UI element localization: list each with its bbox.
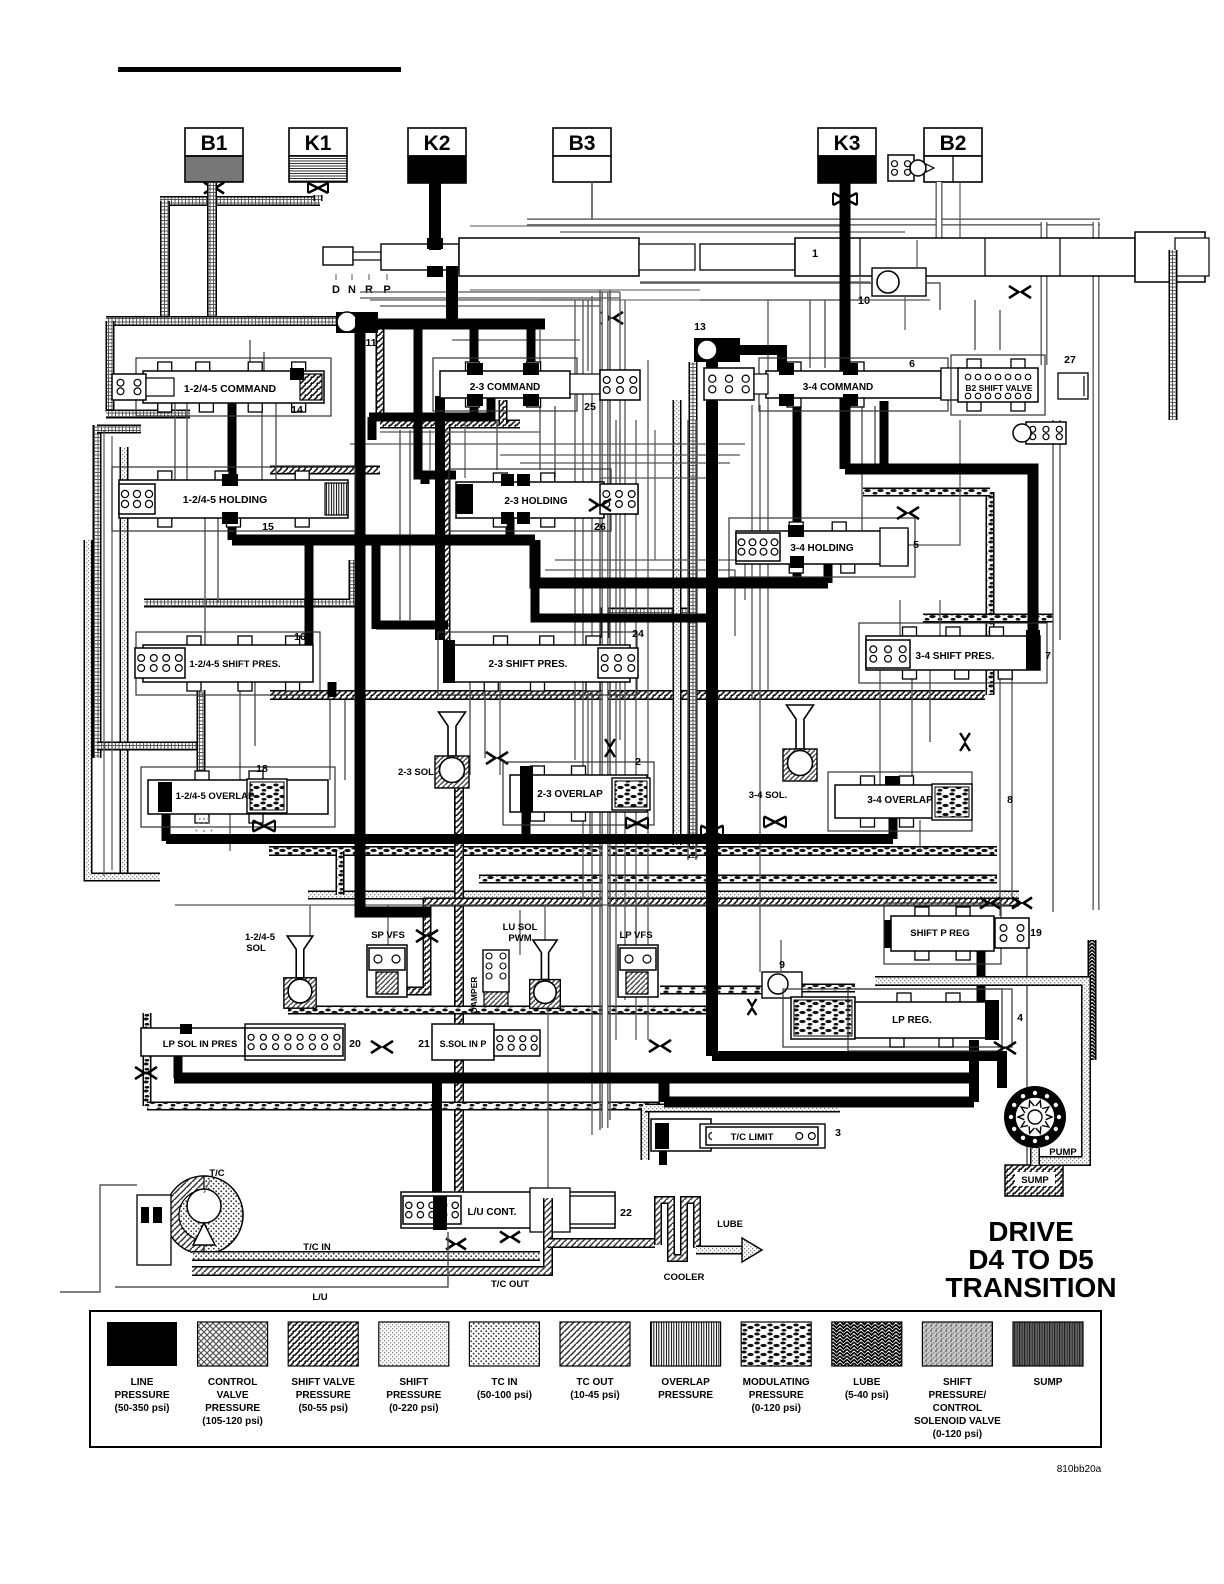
svg-text:16: 16 [294,631,306,643]
line x418 drop [418,324,456,484]
wire b2 shift valve risers [975,300,1060,912]
wire L/U [115,1232,448,1287]
svg-text:2: 2 [635,756,641,768]
svg-text:PWM: PWM [508,933,531,944]
band x677 grid vertical [673,400,682,845]
line holding header y540 [232,518,535,540]
label COOLER [664,1272,705,1283]
line junction11 manifold [355,319,545,330]
clutch K2 [408,128,466,183]
svg-text:LP REG.: LP REG. [892,1015,932,1026]
svg-text:14: 14 [291,404,303,416]
wire near 26 [620,430,655,560]
band y879 modulating [479,875,997,884]
valve 2-3 SHIFT PRES [438,632,638,695]
label LP VFS [619,930,652,941]
svg-text:T/C: T/C [209,1168,224,1179]
svg-text:DAMPER: DAMPER [469,977,479,1014]
label 25 [584,401,596,413]
line x474 to 2-3 command [470,324,479,417]
band lube right frame [1088,940,1097,1060]
svg-text:3-4 OVERLAP: 3-4 OVERLAP [867,795,933,806]
svg-text:SOLENOID VALVE: SOLENOID VALVE [914,1416,1001,1427]
svg-text:3-4 HOLDING: 3-4 HOLDING [790,543,854,554]
line x232 command-holding [228,403,237,540]
label 3-4 SOL [749,790,788,801]
svg-text:(0-120 psi): (0-120 psi) [751,1403,800,1414]
svg-text:4: 4 [1017,1012,1023,1024]
wire overlaps to bands [230,812,920,851]
wire overlap columns [330,700,345,780]
valve 10 [640,268,940,310]
svg-text:MODULATING: MODULATING [743,1377,810,1388]
check 20 [371,1041,393,1053]
svg-text:(0-220 psi): (0-220 psi) [389,1403,438,1414]
svg-text:LUBE: LUBE [717,1219,743,1230]
line x712 long drop [706,362,718,1056]
solenoid LP VFS [618,945,658,997]
svg-text:24: 24 [632,628,644,640]
svg-text:T/C IN: T/C IN [303,1242,331,1253]
clutch B3 [553,128,611,182]
wire right shift pres to reg [1000,670,1012,916]
valve LP SOL IN PRES 20 [141,1024,345,1060]
svg-text:PRESSURE: PRESSURE [114,1390,169,1401]
legend MODULATING [741,1322,811,1414]
svg-text:L/U CONT.: L/U CONT. [468,1207,517,1218]
valve 3-4 OVERLAP [828,772,972,831]
svg-text:1-2/4-5 OVERLAP: 1-2/4-5 OVERLAP [176,791,255,802]
torque converter T/C [60,1176,243,1292]
check valve below B1 [204,183,224,194]
line pressure junction 11 [336,312,378,333]
label 19 [1030,927,1042,939]
svg-text:SP VFS: SP VFS [371,930,405,941]
svg-text:1-2/4-5 SHIFT PRES.: 1-2/4-5 SHIFT PRES. [189,659,280,670]
solenoid 2-3 SOL [435,712,469,788]
svg-text:(50-55 psi): (50-55 psi) [298,1403,347,1414]
wire mid corridor bundle [575,292,625,1135]
svg-text:DRIVE: DRIVE [988,1216,1074,1247]
svg-text:26: 26 [594,521,606,533]
legend TC OUT [560,1322,630,1401]
svg-text:(0-120 psi): (0-120 psi) [933,1429,982,1440]
check below 2-3 overlap [626,818,648,829]
check valve below K1 [308,183,328,193]
vertical check below 9 [748,999,757,1015]
legend SHIFT [379,1322,449,1414]
clutch K3 [818,128,876,183]
svg-text:CONTROL: CONTROL [208,1377,257,1388]
svg-text:CONTROL: CONTROL [933,1403,982,1414]
svg-text:SHIFT VALVE: SHIFT VALVE [291,1377,355,1388]
svg-text:LINE: LINE [131,1377,154,1388]
wire hor link rows [175,904,1010,906]
line drop x360 [360,330,430,912]
title underline [118,67,401,72]
wire left col pair [104,430,112,876]
checks below L/U CONT [446,1232,520,1250]
wire B2 drops [939,182,960,255]
manual valve detents D N R P [332,274,391,296]
svg-text:LP SOL IN PRES: LP SOL IN PRES [163,1039,238,1050]
valve L/U CONT 22 [401,1188,615,1232]
svg-text:SUMP: SUMP [1034,1377,1063,1388]
label 24 [632,628,644,640]
label SP VFS [371,930,405,941]
svg-text:VALVE: VALVE [217,1390,249,1401]
band left outer vertical [97,425,141,758]
wire label10 link [905,240,917,330]
check above 3-4 holding right [897,507,919,519]
wire 3-4 col [810,300,875,530]
band y695 checker [270,690,985,700]
wire hor above shift pres mid [545,560,745,636]
valve 1-2/4-5 COMMAND [112,358,331,416]
wire top manifold [527,222,1100,232]
svg-text:LU SOL: LU SOL [503,922,538,933]
wire shift pres down [240,670,930,785]
check on x712 line [701,826,723,837]
line manifold to L/U CONT [432,1078,442,1228]
wire 2-3 command feeds top [452,330,580,371]
svg-text:2-3 SOL: 2-3 SOL [398,767,434,778]
clutch K1 [289,128,347,182]
label 810bb20a [1057,1464,1102,1475]
label 1 [812,248,818,260]
band tc limit frame [645,1108,840,1160]
label 2 [635,756,641,768]
line K2 to 2-3 shift pres [435,396,445,640]
legend LUBE [832,1322,902,1401]
label 10 [858,295,870,307]
solenoid 1-2/4-5 SOL [284,936,316,1008]
label LU SOL PWM [503,922,538,944]
valve 1-2/4-5 HOLDING [112,467,355,531]
wire 3-4 corridor bundle [752,300,768,972]
label 16 [294,631,306,643]
line shift pres bottom stub [328,682,337,697]
svg-text:L/U: L/U [312,1292,327,1303]
wire command risers [250,340,264,371]
line shift p reg drop [977,951,986,1002]
svg-text:PRESSURE: PRESSURE [205,1403,260,1414]
label 9 [779,959,785,971]
legend SHIFT VALVE [288,1322,358,1414]
svg-text:2-3 SHIFT PRES.: 2-3 SHIFT PRES. [489,659,568,670]
plug 3-4 holding tab [788,525,804,568]
svg-text:3-4 SOL.: 3-4 SOL. [749,790,788,801]
line overlap bottom header [166,818,893,839]
svg-text:(105-120 psi): (105-120 psi) [202,1416,263,1427]
label 14 [291,404,303,416]
svg-text:2-3 OVERLAP: 2-3 OVERLAP [537,789,603,800]
valve S.SOL IN P 21 [432,1024,540,1060]
manual valve assembly 1 [323,226,1209,300]
plug 3-4 command tabs [779,363,858,406]
label 15 [262,521,274,533]
svg-text:1-2/4-5 HOLDING: 1-2/4-5 HOLDING [183,494,268,506]
line tc limit drop [659,1151,667,1165]
svg-text:SHIFT P REG: SHIFT P REG [910,928,969,939]
clutch B1 [185,128,243,182]
band y489 speckle [863,488,990,497]
sump [1005,1165,1063,1196]
band B1-K1 supply horizontal [160,196,320,206]
svg-text:TRANSITION: TRANSITION [945,1272,1116,1303]
svg-text:25: 25 [584,401,596,413]
spray symbol [196,818,212,832]
line 2-3 command bottom header [369,398,491,440]
label 27 [1064,354,1076,366]
svg-text:3: 3 [835,1127,841,1139]
wire right column pair [688,420,696,860]
label 21 [418,1038,430,1050]
cooler coil [658,1200,697,1258]
label 13 [694,321,706,333]
svg-text:27: 27 [1064,354,1076,366]
legend CONTROL [198,1322,268,1427]
svg-text:S.SOL IN P: S.SOL IN P [440,1039,487,1049]
wire 3-4 shift pres feeds [880,600,940,785]
wire sol to overlap links [310,905,636,945]
label 3 [835,1127,841,1139]
wire 2-3 column [400,420,497,620]
label T/C [204,1168,225,1193]
svg-text:3-4 SHIFT PRES.: 3-4 SHIFT PRES. [916,651,995,662]
solenoid LU SOL [530,940,561,1008]
solenoid symbol left of B2 [888,155,934,181]
svg-text:2-3 HOLDING: 2-3 HOLDING [504,496,568,507]
check valve above 3-4 holding [589,499,611,511]
svg-text:SUMP: SUMP [1021,1175,1049,1186]
label 6 [909,358,915,370]
valve 2-3 OVERLAP [503,762,654,825]
check right of row [649,1040,671,1052]
band y847 modulating [269,846,997,856]
svg-text:SOL: SOL [246,943,266,954]
plug 2-3 holding tabs [501,474,530,524]
band checker to shift pres [270,466,380,475]
band left riser [160,201,170,321]
check right of SP VFS [416,930,438,942]
svg-text:OVERLAP: OVERLAP [661,1377,710,1388]
svg-text:K3: K3 [834,132,861,155]
band T/C OUT [192,1198,655,1271]
plug holding tabs [222,474,238,524]
label 1-2/4-5 SOL [245,932,276,954]
band lp vfs to 9 [660,988,855,990]
svg-text:15: 15 [262,521,274,533]
band x990 vertical [986,492,995,695]
valve 1-2/4-5 SHIFT PRES [135,632,320,695]
band control frame 20 [147,1013,660,1106]
valve 3-4 COMMAND [704,358,959,411]
line pump manifold 2 [174,1073,974,1084]
svg-text:TC IN: TC IN [491,1377,517,1388]
line pump manifold 3 [664,1078,974,1102]
band shift pres right [923,614,1053,623]
valve 3-4 SHIFT PRES [859,623,1047,683]
line 13 to 3-4 command [738,350,782,371]
svg-text:D: D [332,284,340,296]
svg-text:K2: K2 [424,132,451,155]
solenoid 3-4 SOL [783,705,817,781]
line K3 drop [840,183,851,469]
lube arrow [696,1238,762,1262]
plug 2-3 command tabs [467,363,539,406]
svg-text:22: 22 [620,1207,632,1219]
svg-text:SHIFT: SHIFT [399,1377,428,1388]
label 7 [1045,650,1051,662]
band above shift pres [144,560,353,603]
line 1-2/4-5 overlap drop [162,812,171,841]
line lp sol drop [174,1054,183,1078]
wire mid risers [588,290,610,1130]
svg-text:(50-350 psi): (50-350 psi) [114,1403,169,1414]
check valve on manual valve right [1009,286,1031,298]
svg-text:19: 19 [1030,927,1042,939]
svg-text:18: 18 [256,763,268,775]
check valve left of 2-3 overlap [486,752,508,764]
wire B3 drop [591,182,593,219]
svg-text:B3: B3 [569,132,596,155]
svg-text:TC OUT: TC OUT [576,1377,613,1388]
svg-text:D4 TO D5: D4 TO D5 [968,1244,1094,1275]
wire 2-3 col mid [430,420,465,478]
svg-text:(5-40 psi): (5-40 psi) [845,1390,889,1401]
svg-text:9: 9 [779,959,785,971]
line pressure K2 drop [435,183,452,326]
svg-text:SHIFT: SHIFT [943,1377,972,1388]
legend LINE [107,1322,177,1414]
valve 9 ball [762,972,802,998]
line x531 to 2-3 command [527,324,536,371]
wire long mid verticals [636,360,648,1040]
svg-text:LP VFS: LP VFS [619,930,652,941]
check valve below K3 [833,193,857,205]
band command right checker [380,326,520,424]
svg-text:COOLER: COOLER [664,1272,705,1283]
vertical check above 3-4 overlap [960,733,970,751]
band feeder row [106,316,336,326]
band left inner vertical [120,447,129,880]
band x340 riser [336,851,345,895]
label 4 [1017,1012,1023,1024]
line 3-4 holding drop [793,401,802,585]
svg-text:P: P [383,284,390,296]
vertical check above 2-3 overlap [605,739,615,757]
legend SHIFT [914,1322,1001,1440]
check valve below overlap [253,821,275,832]
wire network command to holding right [262,403,276,480]
svg-text:(10-45 psi): (10-45 psi) [570,1390,619,1401]
svg-text:2-3 COMMAND: 2-3 COMMAND [470,382,541,393]
band solenoid rail [288,962,713,1010]
svg-text:13: 13 [694,321,706,333]
channel outline LP REG [783,989,1012,1047]
check right of LP REG [994,1042,1016,1054]
plug shift p reg left [884,920,896,948]
line manifold bus riser [969,1040,979,1102]
check valve below B3 [601,312,623,324]
svg-text:7: 7 [1045,650,1051,662]
band lower-left horizontal [97,742,205,751]
line 2-3 shift pres feed [376,540,448,629]
svg-text:PRESSURE: PRESSURE [296,1390,351,1401]
valve 2-3 COMMAND [433,358,640,411]
line pump manifold 1 [712,1056,1002,1088]
svg-text:PRESSURE: PRESSURE [749,1390,804,1401]
legend OVERLAP [651,1322,721,1401]
checks near shift p reg [980,898,1032,909]
legend box [90,1311,1101,1447]
band pump enclosure [875,981,1086,1161]
valve B2 SHIFT VALVE [951,355,1088,415]
line junction 13 [694,338,740,362]
plug black command tab [290,368,304,380]
band sp vfs output [398,902,1019,991]
label L/U [312,1292,327,1303]
band pump to sump [1030,1148,1040,1165]
line 2-3 overlap riser [522,806,531,843]
label T/C IN [303,1242,331,1253]
valve T/C LIMIT 3 [651,1119,825,1151]
line x884 3-4 command feed [880,401,889,469]
check below 3-4 overlap [764,817,786,828]
solenoid SP VFS [367,945,407,997]
label T/C OUT [491,1279,529,1290]
valve small 1030-430 [1013,422,1066,444]
band manual valve drop [1169,250,1178,420]
band checker 2-3 bottom [499,400,508,424]
band K1 drop [314,195,323,201]
wire 25 to holding [540,406,555,478]
valve 2-3 HOLDING [449,469,638,531]
label 26 [594,521,606,533]
svg-text:PRESSURE/: PRESSURE/ [929,1390,987,1401]
band spring riser [197,690,206,775]
band 2-3 sol output [454,786,464,1192]
svg-text:810bb20a: 810bb20a [1057,1464,1102,1475]
label 5 [913,539,919,551]
svg-text:T/C LIMIT: T/C LIMIT [731,1132,774,1143]
svg-text:PRESSURE: PRESSURE [386,1390,441,1401]
pump [1004,1086,1066,1148]
band outer dotted frame [88,540,160,877]
band frame around command spring [106,321,190,414]
wire 2-3 shift pres columns [500,682,610,775]
band T/C IN [192,1251,540,1261]
svg-text:K1: K1 [305,132,332,155]
svg-text:1: 1 [812,248,818,260]
svg-text:(50-100 psi): (50-100 psi) [477,1390,532,1401]
band checker long vertical [442,424,451,640]
svg-text:6: 6 [909,358,915,370]
svg-text:21: 21 [418,1038,430,1050]
svg-text:1-2/4-5 COMMAND: 1-2/4-5 COMMAND [184,383,277,395]
damper [469,950,509,1013]
wire 9 up [780,940,782,972]
wire upper mid horizontals [360,298,740,463]
svg-text:11: 11 [365,337,376,349]
svg-text:1-2/4-5: 1-2/4-5 [245,932,276,943]
wire solenoid feeds [520,292,620,955]
label 8 [1007,794,1013,806]
svg-text:R: R [365,284,373,296]
label 22 [620,1207,632,1219]
svg-text:8: 8 [1007,794,1013,806]
